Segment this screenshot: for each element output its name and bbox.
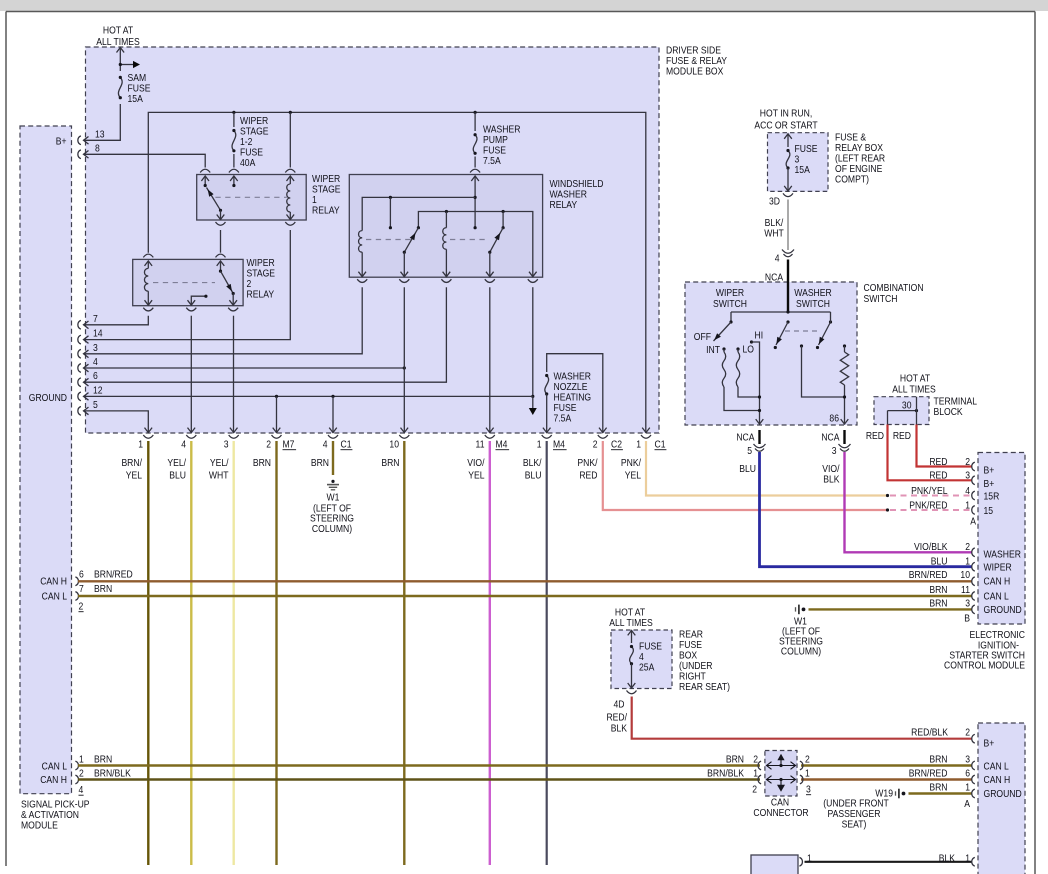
label 2 underlined — [79, 601, 84, 613]
svg-text:1: 1 — [965, 556, 970, 568]
svg-text:A: A — [970, 516, 976, 528]
left module pin 13 connector — [78, 136, 89, 145]
wire WS2 switch to connector pin 3 — [233, 316, 235, 433]
fuse4 top arrow — [628, 630, 636, 643]
svg-text:BRN/RED: BRN/RED — [909, 569, 948, 581]
WW switch1 pivot dot — [417, 226, 420, 229]
ground W1 left — [327, 480, 339, 490]
WW coil1 — [359, 231, 363, 278]
label INT — [706, 344, 720, 356]
label WIPER STAGE 1-2 FUSE 40A — [240, 115, 269, 169]
svg-text:BLU: BLU — [169, 470, 186, 482]
terminal block internal wire — [888, 397, 919, 425]
WW switch2 arm — [490, 228, 503, 253]
ground W1 right — [796, 605, 806, 615]
label WASHER SWITCH — [794, 287, 832, 310]
label WASHER PUMP FUSE 7.5A — [483, 124, 521, 168]
wire WW pin to pin 6 — [84, 287, 447, 382]
svg-text:8: 8 — [95, 143, 100, 155]
label WIPER STAGE 1 RELAY — [312, 173, 341, 217]
wire pin 4 line — [84, 366, 406, 369]
label conn 2 — [266, 439, 271, 451]
WS1 switch pivot stub — [204, 176, 207, 187]
label conn C1a — [341, 439, 353, 451]
label LO — [743, 344, 754, 356]
svg-text:15R: 15R — [984, 491, 1000, 503]
label conn M7 — [283, 439, 297, 451]
label UNDER FRONT PASSENGER SEAT — [823, 798, 889, 831]
wire C1-4 drop — [332, 396, 334, 433]
labels EM pin numbers — [960, 456, 970, 610]
label bottom box pin 1 — [807, 853, 812, 865]
svg-text:B: B — [964, 613, 970, 625]
labels BM wire names right — [909, 754, 970, 794]
WS2 switch pivot — [219, 261, 222, 273]
EM pin WASHER 2 arc — [972, 548, 975, 557]
svg-text:12: 12 — [93, 385, 103, 397]
wire BRN pin10 — [403, 441, 405, 865]
CAN connector box — [765, 751, 797, 797]
svg-text:YEL: YEL — [625, 470, 642, 482]
svg-text:RED: RED — [929, 456, 947, 468]
wiper stage 1 relay box — [197, 175, 307, 221]
bottom box pin arc — [799, 857, 802, 866]
svg-text:BRN: BRN — [311, 457, 329, 469]
wire WW pin to connector 11 — [489, 287, 491, 433]
svg-text:WASHER: WASHER — [984, 549, 1022, 561]
svg-text:40A: 40A — [240, 157, 256, 169]
BM pin BLK 1 arc — [972, 857, 975, 866]
labels EM wire names — [909, 456, 948, 610]
wire BRN lower right — [801, 764, 972, 766]
label conn 10 — [389, 439, 399, 451]
svg-text:YEL/: YEL/ — [167, 457, 186, 469]
label 4D — [614, 699, 625, 711]
label conn 4b — [323, 439, 328, 451]
fuse 3 15A — [786, 149, 790, 170]
svg-text:3D: 3D — [769, 196, 780, 208]
EM pin CAN L 11 arc — [972, 592, 975, 601]
wire BLK/WHT — [787, 200, 789, 251]
svg-text:11: 11 — [961, 584, 970, 596]
terminal block box — [874, 397, 929, 425]
wiper switch arm OFF — [714, 322, 732, 341]
svg-text:1: 1 — [805, 768, 810, 780]
svg-text:4: 4 — [181, 439, 186, 451]
fuse3 bump 3D — [783, 193, 793, 196]
svg-text:3: 3 — [965, 598, 970, 610]
label pin 8 — [95, 143, 100, 155]
svg-text:B+: B+ — [984, 738, 995, 750]
washer arm2 pivot — [829, 312, 832, 324]
labels NCA bottom — [736, 432, 840, 444]
svg-text:10: 10 — [389, 439, 399, 451]
svg-text:C1: C1 — [341, 439, 352, 451]
wire BRN/BLK lower left — [78, 778, 760, 780]
label 7 BRN — [79, 583, 112, 595]
wire washer resistor to exit — [843, 385, 846, 425]
svg-text:VIO/BLK: VIO/BLK — [914, 541, 948, 553]
wire YEL/WHT pin3 — [232, 441, 234, 865]
labels CAN conn left — [707, 754, 758, 796]
label CAN H lower — [40, 774, 67, 786]
BM pin GROUND 1 arc — [972, 789, 975, 798]
svg-text:CONNECTOR: CONNECTOR — [753, 807, 808, 819]
wire WW pin to pin 3 — [84, 287, 363, 354]
label conn 4a — [181, 439, 186, 451]
WS1 contact stub — [232, 176, 235, 187]
svg-text:BRN/BLK: BRN/BLK — [707, 768, 744, 780]
svg-text:1: 1 — [753, 768, 758, 780]
svg-text:HI: HI — [755, 330, 764, 342]
svg-text:7.5A: 7.5A — [483, 155, 501, 167]
washer resistor — [840, 352, 848, 385]
label CAN H upper — [40, 576, 67, 588]
washer switches dashed link — [785, 330, 818, 332]
wire fuse to connector M4-1 — [546, 394, 548, 433]
electronic ignition-starter switch control module box — [978, 453, 1025, 625]
svg-text:PNK/: PNK/ — [577, 457, 597, 469]
svg-text:15: 15 — [984, 505, 994, 517]
wire WS2 contact to connector pin 4 — [190, 316, 192, 433]
label CAN CONNECTOR — [753, 797, 808, 820]
WS2 top pin arrows — [145, 261, 225, 266]
label COMBINATION SWITCH — [864, 282, 924, 305]
wire BRN/YEL pin1 — [147, 441, 149, 865]
fuse & relay box (fuse 3) — [768, 133, 829, 192]
svg-text:WHT: WHT — [764, 228, 784, 240]
label conn 1c — [636, 439, 641, 451]
svg-text:A: A — [964, 798, 970, 810]
left module CAN L pin 7 connector — [75, 592, 78, 601]
svg-text:MODULE BOX: MODULE BOX — [666, 66, 724, 78]
washer resistor top — [843, 344, 846, 352]
washer nozzle fuse loop — [547, 354, 603, 433]
wire BLU — [760, 452, 972, 567]
label 86 — [829, 413, 839, 425]
WS2 bottom arrows — [145, 300, 238, 305]
svg-text:13: 13 — [95, 129, 105, 141]
svg-text:7: 7 — [93, 313, 98, 325]
svg-text:B+: B+ — [56, 136, 67, 148]
windshield washer relay box — [349, 175, 542, 278]
wire PNK/YEL pin C1-1 — [646, 441, 888, 496]
signal pick-up module box — [20, 126, 72, 794]
svg-text:BLOCK: BLOCK — [934, 406, 964, 418]
svg-text:WIPER: WIPER — [984, 562, 1012, 574]
svg-text:CAN L: CAN L — [42, 761, 68, 773]
label RED/BLK row — [911, 727, 970, 739]
EM pin 15 1 arc — [972, 506, 975, 515]
svg-text:7: 7 — [79, 583, 84, 595]
svg-text:RED: RED — [579, 470, 597, 482]
WW top pin arrow — [471, 176, 479, 181]
label 3 connector — [832, 445, 837, 457]
svg-text:25A: 25A — [639, 662, 655, 674]
svg-text:BLU: BLU — [739, 463, 756, 475]
svg-text:PNK/RED: PNK/RED — [909, 500, 947, 512]
svg-text:WHT: WHT — [209, 470, 229, 482]
WW internal wire H1 — [362, 197, 475, 230]
left module pin 6 connector — [78, 378, 89, 387]
label VIO/BLK vert — [822, 463, 840, 486]
label conn 1 — [138, 439, 143, 451]
washer nozzle heating fuse 7.5A — [545, 374, 549, 396]
svg-text:4: 4 — [775, 253, 780, 265]
label ELECTRONIC module name — [944, 629, 1025, 672]
svg-text:VIO/: VIO/ — [467, 457, 485, 469]
svg-text:4: 4 — [93, 356, 98, 368]
label FUSE 4 25A — [639, 641, 662, 674]
svg-text:YEL: YEL — [126, 470, 143, 482]
svg-text:CAN H: CAN H — [40, 774, 67, 786]
label REAR FUSE BOX — [679, 629, 730, 694]
washer switch pivot — [786, 320, 789, 323]
label BLK row — [939, 853, 970, 865]
label BLU — [739, 463, 756, 475]
svg-text:2: 2 — [79, 768, 84, 780]
svg-text:M7: M7 — [283, 439, 295, 451]
wire RED right — [917, 425, 972, 467]
label CAN L upper — [42, 591, 68, 603]
label conn 11 — [476, 439, 485, 451]
junction dot bus/washer pump fuse — [474, 111, 477, 114]
WW switch1 arm — [404, 228, 418, 253]
wire branch with right arrow — [119, 61, 140, 68]
junction dot PNK/RED — [886, 508, 889, 511]
svg-text:RELAY: RELAY — [312, 205, 340, 217]
svg-text:6: 6 — [965, 768, 970, 780]
svg-text:BLK: BLK — [823, 474, 840, 486]
wire BRN ground row — [809, 608, 972, 610]
svg-text:2: 2 — [593, 439, 598, 451]
comb switch exit bumps — [754, 444, 851, 451]
label BRN b — [311, 457, 329, 469]
svg-text:REAR SEAT): REAR SEAT) — [679, 681, 730, 693]
label GROUND — [29, 392, 67, 404]
WS1 coil bottom arrow — [287, 215, 295, 220]
wire pin 5 line — [84, 411, 149, 433]
label DRIVER SIDE FUSE & RELAY MODULE BOX — [666, 45, 728, 78]
wire M7 drop — [276, 396, 278, 433]
wire INT to junction — [724, 387, 761, 412]
svg-text:BLK/: BLK/ — [523, 457, 542, 469]
svg-text:2: 2 — [753, 754, 758, 766]
WS1 switch output — [217, 209, 225, 220]
svg-text:4: 4 — [79, 784, 84, 796]
svg-text:BRN: BRN — [929, 754, 947, 766]
wire RED left — [888, 425, 972, 481]
labels CAN conn right — [805, 754, 811, 796]
labels RED RED — [866, 430, 911, 442]
svg-text:GROUND: GROUND — [984, 604, 1022, 616]
CAN connector arrows row2 — [767, 776, 796, 792]
wire WS1 coil to pin 14 — [84, 230, 291, 340]
svg-text:BLU: BLU — [525, 470, 542, 482]
svg-text:BRN: BRN — [929, 782, 947, 794]
EM pin B+ 2 arc — [972, 462, 975, 471]
svg-text:B+: B+ — [984, 465, 995, 477]
label FUSE & RELAY BOX — [835, 132, 885, 186]
fuse4 bump 4D — [627, 691, 637, 694]
svg-text:15A: 15A — [128, 93, 144, 105]
wire SAM fuse top to module edge arrow — [117, 48, 125, 72]
svg-text:6: 6 — [93, 370, 98, 382]
WW top pin bump — [470, 169, 480, 172]
wire WS1 switch to WS2 — [220, 230, 222, 253]
svg-text:5: 5 — [93, 399, 98, 411]
svg-text:NCA: NCA — [765, 272, 784, 284]
module bottom edge bumps — [143, 435, 651, 438]
label YEL/BLU — [167, 457, 186, 482]
WS1 top pin bumps — [200, 169, 295, 172]
svg-text:GROUND: GROUND — [984, 788, 1022, 800]
svg-text:14: 14 — [93, 328, 103, 340]
inline connector 4 — [782, 250, 794, 257]
label HOT AT ALL TIMES right — [892, 373, 936, 396]
washer switch arm1 — [774, 322, 788, 349]
label A EM — [970, 516, 976, 528]
svg-text:3: 3 — [93, 342, 98, 354]
label WASHER NOZZLE HEATING FUSE 7.5A — [554, 371, 592, 425]
wire top bus — [148, 112, 646, 433]
wiper switch pivot — [729, 312, 732, 324]
wiper stage 2 relay box — [133, 259, 243, 305]
svg-text:2: 2 — [752, 784, 757, 796]
label FUSE 3 15A — [795, 143, 818, 176]
svg-text:NCA: NCA — [736, 432, 755, 444]
label SIGNAL PICK-UP module — [21, 799, 90, 832]
svg-text:BRN/RED: BRN/RED — [94, 569, 133, 581]
SAM fuse — [118, 76, 122, 99]
WS2 switch arm — [221, 271, 234, 293]
svg-text:COMPT): COMPT) — [835, 174, 869, 186]
svg-text:CAN H: CAN H — [984, 576, 1011, 588]
wire bus to washer pump fuse — [474, 112, 476, 131]
WW coil2 drop — [445, 210, 448, 228]
wire BLK bottom — [805, 861, 972, 863]
svg-text:BLU: BLU — [931, 556, 948, 568]
BM pin B+ 2 arc — [972, 734, 975, 743]
wiper LO contact — [736, 347, 739, 352]
svg-text:86: 86 — [829, 413, 839, 425]
svg-text:3: 3 — [965, 470, 970, 482]
label conn 2b — [593, 439, 598, 451]
svg-text:ACC OR START: ACC OR START — [754, 120, 817, 132]
svg-text:1: 1 — [965, 853, 970, 865]
svg-text:BRN: BRN — [253, 457, 271, 469]
wire PNK/YEL dashed — [890, 495, 972, 497]
svg-text:1: 1 — [636, 439, 641, 451]
labels ground pins — [93, 313, 103, 411]
label BRN/YEL — [121, 457, 142, 482]
label conn C1b — [655, 439, 667, 451]
driver side fuse & relay module box — [86, 47, 660, 433]
CAN connector arcs — [758, 761, 803, 784]
label 4 connector — [775, 253, 780, 265]
svg-text:C2: C2 — [611, 439, 622, 451]
junction dot PNK/YEL — [886, 494, 889, 497]
wire bus to wiper stage 1-2 fuse — [233, 112, 235, 167]
svg-text:RELAY: RELAY — [247, 289, 275, 301]
wire stub arrow below junction — [529, 396, 537, 415]
ground W19 — [896, 789, 906, 799]
svg-text:BRN: BRN — [929, 584, 947, 596]
labels BM pin names — [984, 738, 1022, 801]
left module pin 3 connector — [78, 349, 89, 358]
label conn 3 — [224, 439, 229, 451]
WS2 switch output — [232, 292, 235, 306]
comb internal bus — [731, 310, 831, 313]
left module pin 5 connector — [78, 407, 89, 416]
WS2 contact elbow — [191, 295, 207, 306]
label SAM FUSE 15A — [128, 72, 151, 105]
svg-text:2: 2 — [965, 727, 970, 739]
CAN connector arrows row1 — [767, 754, 796, 770]
wire VIO/YEL pin11 — [489, 441, 491, 865]
bottom right module box — [978, 723, 1025, 874]
wiper INT contact — [722, 347, 725, 352]
svg-text:BRN: BRN — [381, 457, 399, 469]
left module CAN L pin 1 connector — [75, 761, 78, 770]
fuse3 top arrow — [784, 134, 792, 147]
svg-text:1: 1 — [537, 439, 542, 451]
label HI — [755, 330, 764, 342]
WS1 dashed link — [215, 196, 286, 198]
junction dot bus/WS1 coil — [289, 111, 292, 114]
svg-text:3: 3 — [224, 439, 229, 451]
EM pin B+ 3 arc — [972, 476, 975, 485]
wire WW pin to connector 10 — [403, 287, 405, 433]
svg-text:COLUMN): COLUMN) — [781, 646, 821, 658]
WS1 top pin arrows — [201, 176, 237, 181]
svg-text:YEL: YEL — [468, 470, 485, 482]
label HOT AT ALL TIMES top-left — [96, 25, 140, 49]
svg-text:ALL TIMES: ALL TIMES — [96, 36, 140, 48]
svg-text:SWITCH: SWITCH — [864, 293, 898, 305]
left module pin 4 connector — [78, 364, 89, 373]
wire pin8 to WS1 relay — [84, 154, 206, 167]
BM pin CAN L 3 arc — [972, 761, 975, 770]
EM pin GROUND 3 arc — [972, 605, 975, 614]
wire BRN/RED CAN H — [78, 580, 972, 582]
svg-text:OFF: OFF — [694, 331, 711, 343]
wire BRN pin2 M7 — [275, 441, 277, 865]
label B EM — [964, 613, 970, 625]
combination switch box — [685, 282, 857, 425]
left module CAN H pin 6 connector — [75, 577, 78, 586]
svg-text:2: 2 — [965, 456, 970, 468]
wire VIO/BLK — [845, 452, 972, 552]
label 3D — [769, 196, 780, 208]
WW switch2 drop — [502, 210, 505, 229]
WW dashed links — [366, 239, 486, 241]
left module pin 14 connector — [78, 335, 89, 344]
svg-text:11: 11 — [476, 439, 485, 451]
svg-text:INT: INT — [706, 344, 720, 356]
bottom left partial box — [751, 855, 798, 874]
label A BM — [964, 798, 970, 810]
wiper stage 1-2 fuse 40A — [232, 129, 236, 153]
fuse4 bottom wire — [628, 664, 636, 688]
svg-text:2: 2 — [79, 601, 84, 613]
WW switch1 contact — [403, 251, 406, 278]
svg-text:2: 2 — [965, 541, 970, 553]
wire pin13 to SAM fuse — [84, 104, 121, 140]
label BLK/BLU — [523, 457, 542, 482]
label conn M4a — [496, 439, 510, 451]
label W1 right — [779, 616, 823, 658]
